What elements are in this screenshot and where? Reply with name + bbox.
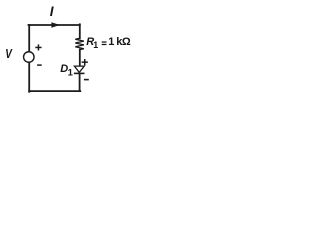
polarity + of source [35,44,41,50]
svg-text:I: I [50,4,55,19]
label = (two bars) [102,41,107,45]
polarity - of source [37,64,42,66]
wire top-left vertical (source top to corner) [28,25,30,52]
svg-text:1: 1 [93,40,98,50]
polarity + of diode [82,59,88,65]
svg-text:Ω: Ω [122,36,131,48]
diode D1 cathode bar [74,72,85,74]
polarity - of diode [84,79,89,81]
wire bottom horizontal [29,90,80,92]
current arrow I [51,22,60,27]
wire bottom-left vertical (corner up to source bottom) [28,63,30,92]
svg-text:1: 1 [108,36,114,48]
resistor R1 [75,38,84,49]
wire resistor bottom to diode top [79,50,81,66]
wire diode bottom to bottom-right corner [79,74,81,91]
svg-text:V: V [5,47,13,62]
wire right vertical (corner to resistor top) [79,24,81,38]
diode D1 triangle [74,66,84,72]
svg-text:1: 1 [68,67,74,78]
wire top horizontal [29,24,80,26]
voltage source V [24,52,35,63]
